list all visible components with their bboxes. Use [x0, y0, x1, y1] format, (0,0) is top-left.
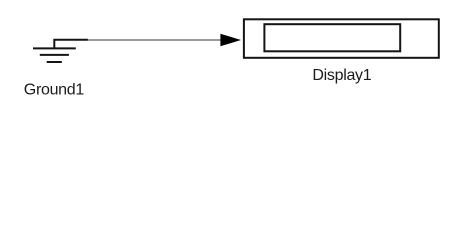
wire arrowhead at display pin	[220, 34, 241, 46]
display U1 outer body	[244, 19, 439, 58]
display U1 inner screen	[264, 24, 400, 51]
ground bar 2 (middle)	[40, 54, 69, 56]
ground GND1 symbol	[33, 40, 88, 62]
ground lead (vertical stub + horizontal pin)	[54, 40, 88, 49]
svg-text:Ground1: Ground1	[24, 82, 85, 99]
ground bar 1 (top, widest)	[33, 47, 76, 49]
svg-text:Display1: Display1	[312, 67, 371, 84]
ground bar 3 (bottom, shortest)	[47, 61, 62, 63]
wire from ground to display	[88, 39, 222, 41]
